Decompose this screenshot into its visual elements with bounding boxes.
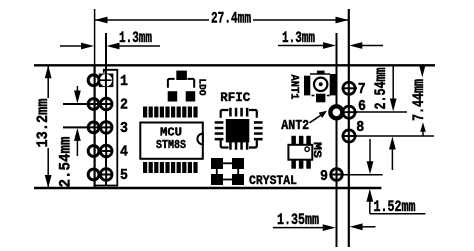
svg-text:4: 4 xyxy=(120,144,128,161)
header J1 silkscreen box xyxy=(94,70,117,186)
RFIC U3 right pads xyxy=(254,121,263,140)
antenna connector ANT1 xyxy=(304,71,337,103)
pad number 8 xyxy=(356,119,364,136)
pad 6 (right edge) xyxy=(342,106,358,118)
svg-text:8: 8 xyxy=(356,119,364,136)
dimension 1.35mm (inner column to right edge, bottom) xyxy=(273,211,376,231)
pad 1 (square pin-1 pad with hole) xyxy=(99,74,114,88)
pin number 5 xyxy=(120,167,128,184)
dimension 7.44mm (right, top edge to pad8 row) xyxy=(410,67,428,137)
RFIC U3 (QFN outline corners) xyxy=(221,110,257,148)
svg-text:1.3mm: 1.3mm xyxy=(282,29,315,47)
crystal Y1 (4 pads and outline) xyxy=(211,158,244,185)
label ANT1 xyxy=(287,75,299,100)
pin number 2 xyxy=(120,97,128,114)
wire: PCB top edge (extended left and right as extension line) xyxy=(34,64,435,66)
transistor/SOT U4 MS top pins xyxy=(291,136,310,145)
svg-text:1.35mm: 1.35mm xyxy=(277,211,319,229)
pin number 4 xyxy=(120,144,128,161)
U4 MS body xyxy=(288,145,312,160)
U4 MS bottom pins xyxy=(291,160,310,169)
pad 2 (crossed pad row 2) xyxy=(63,98,113,110)
LDO U2 (regulator pads and outline) xyxy=(168,71,196,102)
RFIC U3 die (center square) xyxy=(226,119,250,142)
dimension 1.3mm (top right, inner column to right edge) xyxy=(278,29,383,49)
dimension 1.52mm (pad9 row to bottom edge) xyxy=(343,139,425,216)
label MS xyxy=(310,142,322,158)
svg-text:5: 5 xyxy=(120,167,128,184)
pad number 9 xyxy=(320,168,328,185)
dimension 27.4mm (top overall width) xyxy=(95,10,349,28)
pad 5 (crossed pad row 5) xyxy=(98,169,113,181)
svg-text:LDO: LDO xyxy=(195,79,206,96)
svg-text:13.2mm: 13.2mm xyxy=(34,98,52,147)
pad number 6 xyxy=(358,98,366,115)
dimension 2.54mm (left, row2 to row3 pitch) xyxy=(57,86,88,188)
svg-text:27.4mm: 27.4mm xyxy=(211,10,251,28)
svg-text:3: 3 xyxy=(120,120,128,137)
wire: PCB bottom edge (extended left and right) xyxy=(34,187,381,189)
svg-text:2: 2 xyxy=(120,97,128,114)
hole 4 xyxy=(88,146,99,157)
MCU U1 top pin row xyxy=(143,107,198,118)
label RFIC xyxy=(220,90,250,105)
dimension 2.54mm (right, pad6 to pad8 pitch) xyxy=(355,66,434,170)
pad 3 (crossed pad row 3) xyxy=(63,122,113,134)
svg-text:7.44mm: 7.44mm xyxy=(410,79,428,121)
hole 2 xyxy=(88,99,99,110)
svg-text:1.3mm: 1.3mm xyxy=(119,29,152,47)
svg-text:2.54mm: 2.54mm xyxy=(372,67,390,109)
hole 3 xyxy=(88,122,99,133)
wire: right inner column line C (through via 6 and pad 9) xyxy=(336,33,338,247)
svg-text:2.54mm: 2.54mm xyxy=(57,136,75,187)
label ANT2 with leader arrow to via xyxy=(281,111,327,134)
RFIC U3 bottom pads xyxy=(229,141,248,150)
svg-text:1: 1 xyxy=(120,73,128,90)
pin number 3 xyxy=(120,120,128,137)
svg-text:ANT2: ANT2 xyxy=(281,118,309,134)
wire: left pad column line B xyxy=(105,33,107,186)
MCU U1 body (STM8S) xyxy=(140,123,203,159)
wire: PCB right edge / extension line D xyxy=(348,9,350,247)
pin number 1 xyxy=(120,73,128,90)
via 6 (ANT2 feed via) xyxy=(330,106,342,118)
dimension 1.3mm (top left, edge to pin column) xyxy=(60,29,160,49)
pad 7 (right edge) xyxy=(342,82,358,94)
dimension 13.2mm (left overall height) xyxy=(34,65,52,188)
svg-text:9: 9 xyxy=(320,168,328,185)
wire: PCB left edge / extension line A xyxy=(94,9,96,188)
svg-text:CRYSTAL: CRYSTAL xyxy=(249,173,297,188)
label LDO xyxy=(195,79,206,96)
label CRYSTAL xyxy=(249,173,297,188)
svg-text:6: 6 xyxy=(358,98,366,115)
pad 9 (inner column) xyxy=(330,169,344,181)
svg-text:7: 7 xyxy=(358,81,366,98)
pad number 7 xyxy=(358,81,366,98)
svg-text:ANT1: ANT1 xyxy=(287,75,299,100)
RFIC U3 top pads xyxy=(229,108,248,117)
hole 1 (left mounting hole row 1) xyxy=(88,75,99,86)
pad 4 (crossed pad row 4) xyxy=(98,145,113,157)
pad 8 (right edge) xyxy=(342,130,358,142)
svg-text:1.52mm: 1.52mm xyxy=(374,198,416,216)
MCU U1 bottom pin row xyxy=(143,162,198,173)
svg-text:MS: MS xyxy=(310,142,322,158)
hole 5 xyxy=(88,169,99,180)
svg-text:STM8S: STM8S xyxy=(156,138,186,152)
svg-text:RFIC: RFIC xyxy=(220,90,250,105)
RFIC U3 left pads xyxy=(215,121,224,140)
